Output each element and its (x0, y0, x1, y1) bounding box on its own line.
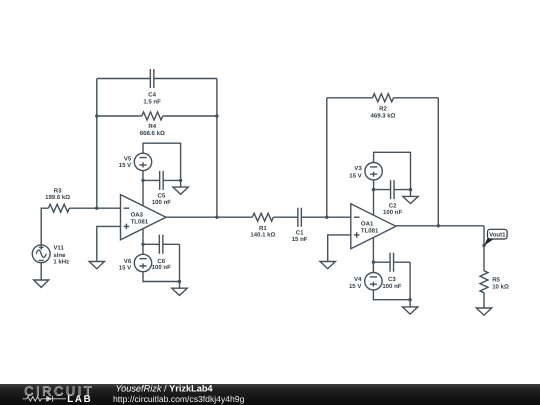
wire to ground C2 (410, 190, 412, 197)
wire feedback loop top (C4 branch) (97, 78, 217, 80)
wire C5 row (143, 179, 181, 181)
svg-text:100 nF: 100 nF (152, 264, 171, 271)
svg-text:15 V: 15 V (349, 283, 361, 290)
capacitor C1 (298, 208, 302, 227)
svg-text:C2: C2 (389, 203, 397, 210)
wire R4 row (97, 115, 217, 117)
junction V+ rail OA1 (372, 188, 375, 191)
svg-text:100 nF: 100 nF (383, 209, 402, 216)
svg-text:199.6 kΩ: 199.6 kΩ (45, 194, 70, 201)
source V4 (365, 273, 382, 290)
op-amp OA1 TL081 (351, 204, 396, 249)
wire OA1 output row (396, 225, 484, 227)
wire V6 bottom loop (143, 272, 180, 282)
source V3 (365, 163, 382, 180)
wire to ground C3 (409, 300, 411, 307)
capacitor C4 (150, 69, 154, 88)
svg-text:C4: C4 (148, 92, 156, 99)
ground near C2 (403, 196, 418, 203)
ground under R5 (476, 308, 491, 315)
svg-text:15 nF: 15 nF (292, 236, 308, 243)
svg-text:10 kΩ: 10 kΩ (492, 283, 509, 290)
svg-text:15 V: 15 V (119, 265, 131, 272)
footer bar (0, 384, 540, 405)
junction V- rail OA3 (141, 243, 144, 246)
source V5 (134, 153, 151, 170)
junction R4 left (95, 114, 98, 117)
svg-text:V5: V5 (124, 156, 132, 163)
svg-text:http://circuitlab.com/cs3fdkj4: http://circuitlab.com/cs3fdkj4y4h9g (113, 394, 245, 404)
svg-text:OA3: OA3 (131, 211, 144, 218)
junction C6 ground node (178, 280, 181, 283)
junction node inverting input OA1 (325, 216, 328, 219)
ground at OA1 non-inverting input (320, 262, 335, 269)
wire V5 top loop (143, 143, 181, 180)
wire C6 right drop (179, 244, 181, 281)
svg-text:sine: sine (53, 252, 66, 259)
svg-text:TL081: TL081 (361, 228, 379, 235)
svg-text:668.6 kΩ: 668.6 kΩ (140, 130, 165, 137)
ground near C3 (402, 307, 417, 314)
wire V4 top (372, 262, 374, 272)
logo schematic squiggle (23, 396, 67, 402)
wire OA3 V+ pin (142, 180, 144, 205)
resistor R4 (142, 112, 163, 120)
wire V3 top loop (374, 152, 411, 189)
svg-text:C1: C1 (296, 230, 304, 237)
ground near C5 (173, 187, 188, 194)
svg-text:C6: C6 (157, 258, 165, 265)
wire OA3 V- pin (142, 229, 144, 245)
wire V6 top (142, 244, 144, 254)
wire C3 row (373, 261, 410, 263)
wire C2 row (374, 189, 411, 191)
wire OA1 V- pin (372, 238, 374, 263)
wire V3 bottom to rail (373, 180, 375, 190)
svg-text:TL081: TL081 (131, 218, 149, 225)
svg-text:15 V: 15 V (349, 172, 361, 179)
svg-text:1.5 nF: 1.5 nF (143, 98, 161, 105)
junction node inverting input OA3 (95, 207, 98, 210)
junction C2 right (409, 188, 412, 191)
wire V5 bottom to rail (142, 171, 144, 181)
wire to ground C5 (180, 180, 182, 187)
wire V11 to R3 (41, 208, 48, 245)
svg-text:469.3 kΩ: 469.3 kΩ (370, 112, 395, 119)
resistor R2 (373, 94, 394, 102)
wire V4 bottom loop (373, 290, 410, 300)
ground near C6 (172, 288, 187, 295)
source V11 sine (32, 245, 50, 263)
junction Vout1 tap (482, 244, 485, 247)
svg-text:100 nF: 100 nF (382, 283, 401, 290)
resistor R1 (252, 213, 273, 221)
svg-text:V3: V3 (354, 165, 362, 172)
svg-text:R1: R1 (259, 225, 267, 232)
resistor R3 (48, 204, 69, 212)
capacitor C2 (391, 180, 395, 199)
svg-text:YousefRizk / YrizkLab4: YousefRizk / YrizkLab4 (116, 383, 214, 393)
wire OA1 V+ pin (373, 190, 375, 216)
wire left vertical of OA1 feedback (326, 98, 328, 217)
svg-text:Vout1: Vout1 (489, 232, 506, 239)
ground at OA3 non-inverting input (89, 262, 104, 269)
svg-text:LAB: LAB (67, 394, 92, 405)
wire left vertical of OA3 feedback (96, 79, 98, 209)
source V6 (134, 254, 151, 271)
svg-text:C3: C3 (388, 276, 396, 283)
capacitor C5 (160, 171, 164, 190)
node flag Vout1 (484, 229, 507, 246)
wire R5 to ground (483, 293, 485, 308)
junction V+ rail OA3 (141, 179, 144, 182)
svg-text:100 nF: 100 nF (152, 199, 171, 206)
wire R2 row (327, 97, 439, 99)
svg-text:R2: R2 (379, 106, 387, 113)
svg-text:V6: V6 (124, 258, 132, 265)
junction OA3 output feedback (215, 216, 218, 219)
wire OA3 output row (166, 216, 351, 218)
wire R3 to OA3 inverting input (69, 207, 120, 209)
capacitor C3 (390, 253, 394, 272)
ground under V11 (34, 280, 49, 287)
wire right vertical of OA3 feedback (216, 79, 218, 218)
wire C6 row (143, 243, 180, 245)
svg-text:1 kHz: 1 kHz (53, 259, 69, 266)
wire C3 right drop (409, 262, 411, 300)
svg-text:140.1 kΩ: 140.1 kΩ (250, 232, 275, 239)
junction C5 right (179, 179, 182, 182)
svg-text:15 V: 15 V (119, 162, 131, 169)
wire right vertical of OA1 feedback (437, 98, 439, 226)
junction R4 right (215, 114, 218, 117)
wire V11 to ground (40, 263, 42, 280)
wire OA1 non-inverting input to ground (328, 235, 351, 262)
svg-text:R4: R4 (148, 123, 156, 130)
capacitor C6 (159, 235, 163, 254)
wire to ground C6 (179, 282, 181, 289)
junction OA1 output feedback (437, 224, 440, 227)
svg-text:R3: R3 (54, 187, 62, 194)
svg-text:V4: V4 (354, 276, 362, 283)
junction C3 ground node (408, 298, 411, 301)
wire OA3 non-inverting input to ground (97, 226, 121, 261)
wire output down to R5 (483, 226, 485, 271)
op-amp OA3 TL081 (121, 195, 167, 240)
svg-text:C5: C5 (158, 192, 166, 199)
resistor R5 (480, 271, 488, 293)
junction V- rail OA1 (372, 261, 375, 264)
svg-text:OA1: OA1 (361, 221, 374, 228)
svg-text:V11: V11 (53, 245, 64, 252)
svg-text:R5: R5 (492, 276, 500, 283)
